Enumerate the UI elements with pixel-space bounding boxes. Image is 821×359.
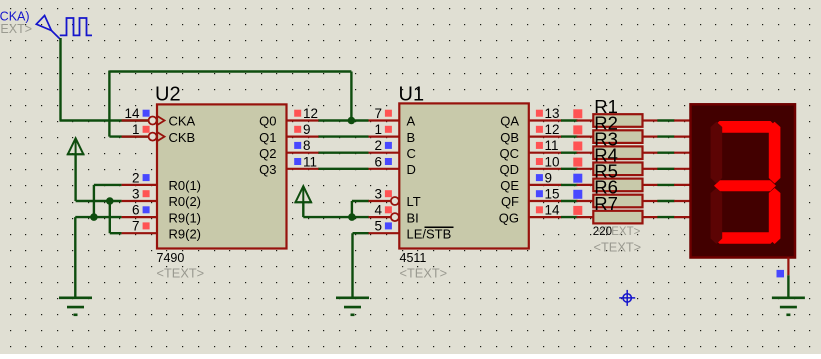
power terminal (U2 reset net) xyxy=(67,138,84,154)
resistor R1 body xyxy=(593,114,642,127)
svg-text:R9(1): R9(1) xyxy=(169,210,202,225)
svg-text:R7: R7 xyxy=(594,193,618,214)
pin 3 (R0(2)) of U2 xyxy=(122,187,201,210)
resistor R3 lead left xyxy=(577,152,594,154)
wire Q1-B xyxy=(318,135,369,137)
svg-text:2: 2 xyxy=(132,170,140,185)
svg-text:1: 1 xyxy=(132,122,140,137)
svg-text:12: 12 xyxy=(303,106,318,121)
display pin stub row 2 xyxy=(674,136,691,138)
svg-text:Q3: Q3 xyxy=(259,162,276,177)
pin 2 (C) of U1 xyxy=(369,138,416,161)
wire state indicator square row 2 xyxy=(573,125,582,134)
segment G (lit) xyxy=(714,180,776,191)
pin 9 (Q1) of U2 xyxy=(259,122,318,145)
segment F (unlit) xyxy=(711,122,723,184)
pin 1 (B) of U1 xyxy=(369,122,416,145)
pin 11 (QC) of U1 xyxy=(500,138,562,161)
IC U2 body xyxy=(157,104,287,248)
clock waveform glyph xyxy=(60,18,92,35)
wire R1 to display xyxy=(657,119,674,121)
svg-text:<TEXT>: <TEXT> xyxy=(0,22,32,36)
svg-text:QB: QB xyxy=(500,130,519,145)
svg-text:<TEXT>: <TEXT> xyxy=(400,265,448,280)
svg-text:U1: U1 xyxy=(399,84,425,106)
origin crosshair marker xyxy=(619,290,635,306)
svg-text:6: 6 xyxy=(374,154,382,169)
svg-text:15: 15 xyxy=(545,187,560,202)
pin 5 (LE/STB) of U1 xyxy=(369,219,454,242)
svg-text:R0(1): R0(1) xyxy=(169,178,202,193)
svg-text:4: 4 xyxy=(374,203,382,218)
resistor R6 lead left xyxy=(577,200,594,202)
resistor R1 lead left xyxy=(577,119,594,121)
svg-text:7: 7 xyxy=(132,219,140,234)
svg-text:11: 11 xyxy=(545,138,559,153)
svg-text:9: 9 xyxy=(545,170,553,185)
svg-text:12: 12 xyxy=(545,122,560,137)
svg-text:Q1: Q1 xyxy=(259,130,276,145)
pin 4 (BI) of U1 xyxy=(369,203,419,226)
svg-text:1: 1 xyxy=(374,122,382,137)
svg-text:QC: QC xyxy=(500,146,520,161)
segment B (lit) xyxy=(769,122,781,184)
pin 6 (D) of U1 xyxy=(369,154,416,177)
svg-text:220: 220 xyxy=(593,226,612,238)
display pin stub row 1 xyxy=(674,119,691,121)
svg-text:9: 9 xyxy=(303,122,311,137)
wire R2 to display xyxy=(657,135,674,137)
svg-text:C: C xyxy=(407,146,416,161)
svg-text:CKB: CKB xyxy=(169,130,196,145)
resistor R6 body xyxy=(593,195,642,208)
ground (U1 net) xyxy=(336,298,369,315)
wire power to R0(2) xyxy=(74,154,76,201)
resistor R2 lead left xyxy=(577,136,594,138)
wire R7 to display xyxy=(657,216,674,218)
display common pin stub xyxy=(787,258,789,276)
svg-text:QF: QF xyxy=(501,194,519,209)
wire state indicator square row 3 xyxy=(573,142,582,151)
wire U1 pin to R6 xyxy=(561,200,578,202)
pin 7 (R9(2)) of U2 xyxy=(122,219,201,242)
wire Q2-C xyxy=(318,151,369,153)
pin 12 (Q0) of U2 xyxy=(259,106,318,129)
pin 1 (CKB) of U2 xyxy=(122,122,196,145)
wire Q0 feedback top horizontal xyxy=(109,70,351,72)
wire U1 pin to R7 xyxy=(561,216,578,218)
display pin stub row 7 xyxy=(674,216,691,218)
clock generator symbol xyxy=(36,16,60,40)
resistor R5 body xyxy=(593,179,642,192)
svg-text:QD: QD xyxy=(500,162,520,177)
wire Q0-A xyxy=(318,119,369,121)
svg-text:QG: QG xyxy=(499,210,519,225)
wire state indicator square row 1 xyxy=(573,109,582,118)
pin 14 (QG) of U1 xyxy=(499,203,562,226)
pin 7 (A) of U1 xyxy=(369,106,416,129)
display pin stub row 5 xyxy=(674,184,691,186)
svg-text:D: D xyxy=(407,162,416,177)
wire R9(2) riser xyxy=(109,201,111,233)
resistor R2 body xyxy=(593,130,642,143)
display pin stub row 6 xyxy=(674,200,691,202)
resistor R3 lead right xyxy=(643,152,658,154)
wire R0(1) down xyxy=(94,184,122,186)
resistor R1 lead right xyxy=(643,119,658,121)
resistor R7 lead left xyxy=(577,216,594,218)
svg-text:R0(2): R0(2) xyxy=(169,194,202,209)
pin 2 (R0(1)) of U2 xyxy=(122,170,201,193)
svg-text:7: 7 xyxy=(374,106,382,121)
wire U1 pin to R5 xyxy=(561,184,578,186)
svg-text:LT: LT xyxy=(407,194,421,209)
resistor R4 lead right xyxy=(643,168,658,170)
pin 8 (Q2) of U2 xyxy=(259,138,318,161)
wire U1 pin to R2 xyxy=(561,135,578,137)
wire state indicator square row 6 xyxy=(573,190,582,199)
svg-text:6: 6 xyxy=(132,203,140,218)
svg-text:2: 2 xyxy=(374,138,382,153)
wire clock output vertical xyxy=(59,38,61,121)
svg-text:14: 14 xyxy=(545,203,561,218)
wire state indicator square row 7 xyxy=(573,206,582,215)
wire U1 pin to R1 xyxy=(561,119,578,121)
resistor R3 body xyxy=(593,146,642,159)
wire feedback right vertical xyxy=(350,72,352,121)
wire clock to CKA xyxy=(60,119,149,121)
ground (U2 net) xyxy=(59,298,92,315)
wire U1 pin to R4 xyxy=(561,168,578,170)
pin 10 (QD) of U1 xyxy=(500,154,562,177)
pin 13 (QA) of U1 xyxy=(500,106,562,129)
pin 6 (R9(1)) of U2 xyxy=(122,203,201,226)
wire R3 to display xyxy=(657,151,674,153)
svg-text:Q2: Q2 xyxy=(259,146,276,161)
junction node Q0/A xyxy=(348,117,356,125)
pin 11 (Q3) of U2 xyxy=(259,154,318,177)
resistor R7 lead right xyxy=(643,216,658,218)
segment D (lit) xyxy=(714,232,777,244)
pin 3 (LT) of U1 xyxy=(369,187,421,210)
wire U1 pin to R3 xyxy=(561,151,578,153)
resistor R4 lead left xyxy=(577,168,594,170)
resistor R5 lead right xyxy=(643,184,658,186)
junction node LT/BI xyxy=(348,213,356,221)
svg-text:QE: QE xyxy=(500,178,519,193)
IC U1 body xyxy=(399,103,529,248)
svg-text:11: 11 xyxy=(303,154,317,169)
wire feedback to CKB xyxy=(109,135,148,137)
segment C (lit) xyxy=(769,188,781,244)
wire Q3-D xyxy=(318,168,369,170)
svg-text:LE/STB: LE/STB xyxy=(407,226,452,241)
display common state square xyxy=(777,270,785,278)
wire feedback left vertical xyxy=(108,71,110,137)
ground (display) xyxy=(772,298,805,315)
wire state indicator square row 4 xyxy=(573,158,582,167)
wire LE/STB to ground xyxy=(353,232,370,234)
svg-text:Q0: Q0 xyxy=(259,114,276,129)
svg-text:<TEXT>: <TEXT> xyxy=(157,265,205,280)
svg-text:5: 5 xyxy=(374,219,382,234)
display pin stub row 3 xyxy=(674,152,691,154)
svg-text:8: 8 xyxy=(303,138,311,153)
svg-text:BI: BI xyxy=(407,210,419,225)
svg-text:B: B xyxy=(407,130,416,145)
resistor R2 lead right xyxy=(643,136,658,138)
resistor R4 body xyxy=(593,163,642,176)
wire R6 to display xyxy=(657,200,674,202)
power terminal (U1 LT/BI net) xyxy=(295,186,312,202)
junction node R0(2)/R9(2) riser xyxy=(106,197,114,205)
svg-text:4511: 4511 xyxy=(400,251,427,265)
wire state indicator square row 5 xyxy=(573,174,582,183)
svg-text:3: 3 xyxy=(374,187,382,202)
svg-text:10: 10 xyxy=(545,154,560,169)
svg-text:<TEXT>: <TEXT> xyxy=(594,239,642,254)
wire R5 to display xyxy=(657,184,674,186)
wire R4 to display xyxy=(657,168,674,170)
svg-text:R9(2): R9(2) xyxy=(169,226,202,241)
segment E (unlit) xyxy=(711,188,723,244)
resistor R5 lead left xyxy=(577,184,594,186)
wire display common to ground xyxy=(787,275,789,297)
svg-text:13: 13 xyxy=(545,106,560,121)
segment A (lit) xyxy=(714,121,777,133)
svg-text:U2: U2 xyxy=(155,84,181,106)
junction node R0(1)/R9(1) xyxy=(90,213,98,221)
wire power to BI xyxy=(302,202,304,217)
svg-text:A: A xyxy=(407,114,416,129)
resistor R6 lead right xyxy=(643,200,658,202)
wire LT xyxy=(352,200,369,202)
display pin stub row 4 xyxy=(674,168,691,170)
svg-text:14: 14 xyxy=(124,106,140,121)
pin 15 (QF) of U1 xyxy=(501,187,562,210)
svg-text:3: 3 xyxy=(132,187,140,202)
svg-text:7490: 7490 xyxy=(157,251,185,265)
svg-text:QA: QA xyxy=(500,114,519,129)
resistor R7 body xyxy=(593,211,642,224)
svg-text:CKA: CKA xyxy=(169,114,196,129)
wire R9(1) to ground xyxy=(75,216,121,218)
pin 12 (QB) of U1 xyxy=(500,122,562,145)
pin 14 (CKA) of U2 xyxy=(122,106,196,129)
7-segment display body xyxy=(691,104,796,257)
pin 9 (QE) of U1 xyxy=(500,170,562,193)
